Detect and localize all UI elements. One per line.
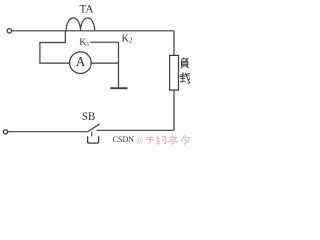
switch SB stem bbox=[91, 132, 93, 137]
watermark 夕 bbox=[181, 135, 189, 144]
resistor load box bbox=[170, 55, 179, 90]
wire: ammeter right to vertical bbox=[91, 62, 119, 64]
label 载 (load char 2) bbox=[180, 72, 190, 83]
switch SB blade bbox=[88, 124, 100, 132]
svg-text:K2: K2 bbox=[122, 33, 133, 44]
terminal bottom-left bbox=[3, 130, 7, 134]
wire: right side down to load bbox=[173, 31, 175, 56]
terminal top-left bbox=[7, 29, 11, 33]
label 负 (load char 1) bbox=[180, 58, 188, 69]
wire: right vertical to ground bbox=[118, 42, 120, 88]
transformer TA primary humps bbox=[66, 18, 95, 31]
watermark 于 bbox=[146, 137, 154, 143]
svg-text:CSDN @: CSDN @ bbox=[113, 135, 144, 144]
wire: bottom right segment bbox=[97, 129, 174, 131]
wire: to ammeter left bbox=[39, 62, 69, 64]
svg-text:SB: SB bbox=[82, 111, 95, 123]
switch SB button bracket bbox=[88, 136, 99, 143]
wire: bottom left segment bbox=[8, 131, 88, 133]
svg-text:K1: K1 bbox=[79, 37, 89, 48]
wire: left CT secondary drop bbox=[64, 31, 66, 43]
switch K1 wire bbox=[90, 41, 118, 43]
wire: horizontal to left bbox=[40, 42, 66, 44]
svg-text:TA: TA bbox=[80, 4, 94, 16]
wire: below load bbox=[173, 90, 175, 130]
ammeter U1 circle bbox=[70, 52, 92, 74]
watermark 宇 bbox=[168, 136, 178, 145]
ground bbox=[110, 87, 127, 89]
wire: top main line bbox=[12, 30, 174, 32]
wire: left vertical down bbox=[39, 42, 41, 63]
svg-text:A: A bbox=[76, 54, 86, 69]
watermark 钧 bbox=[156, 135, 166, 143]
